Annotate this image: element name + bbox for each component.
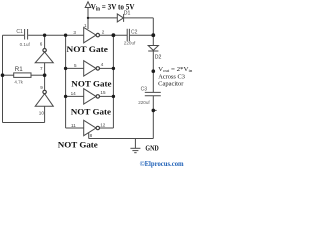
wire gate A input [66, 67, 84, 69]
wire R1 left lead [3, 74, 14, 76]
node dot R1 right stem [43, 73, 47, 77]
svg-text:3: 3 [73, 30, 76, 35]
op-amp U1a bubble [43, 49, 46, 52]
ground bar 3 [134, 152, 136, 154]
wire C2 right lead [129, 34, 153, 36]
svg-text:NOT Gate: NOT Gate [71, 106, 111, 116]
wire gate A output [100, 67, 114, 69]
op-amp U1e bubble [96, 95, 99, 98]
svg-text:NOT Gate: NOT Gate [66, 44, 107, 54]
svg-text:C2: C2 [131, 30, 138, 36]
wire upper up-gate bubble to top rail [44, 35, 46, 48]
svg-text:6: 6 [40, 42, 43, 47]
wire Vin stem and pin1 [87, 8, 89, 30]
svg-text:4.7k: 4.7k [14, 80, 23, 85]
svg-text:C3: C3 [141, 87, 148, 93]
resistor R1 body [14, 73, 31, 78]
svg-text:D2: D2 [155, 54, 162, 60]
wire pin8 stem [88, 131, 90, 139]
svg-text:©Elprocus.com: ©Elprocus.com [140, 159, 185, 168]
op-amp U1f buffer NOT gate C triangle (pins 11-12) [84, 120, 96, 135]
capacitor C3 bottom plate [145, 95, 161, 97]
op-amp U1f bubble [96, 126, 99, 129]
capacitor C1 right plate [27, 29, 29, 40]
wire top rail left segment [3, 34, 25, 36]
op-amp U1b bubble [43, 90, 46, 93]
wire Vin to D1 anode [88, 17, 117, 19]
svg-text:14: 14 [71, 91, 77, 96]
diode D1 cathode bar [123, 14, 125, 22]
svg-text:10: 10 [39, 111, 45, 116]
wire oscillator output to C2 [100, 34, 128, 36]
svg-text:NOT Gate: NOT Gate [71, 78, 111, 88]
svg-text:D1: D1 [124, 11, 131, 17]
op-amp U1c oscillator NOT gate triangle (pins 1-3-2) [84, 27, 96, 42]
svg-text:C1: C1 [16, 29, 23, 35]
svg-text:220uf: 220uf [124, 40, 136, 45]
capacitor C3 top plate [145, 91, 161, 93]
ground bar 2 [132, 150, 138, 152]
wire right vertical D1 to D2 [152, 18, 154, 46]
svg-text:Across C3: Across C3 [158, 73, 185, 80]
op-amp U1e buffer NOT gate B triangle (pins 14-15) [84, 89, 96, 104]
ground bar 1 [130, 147, 140, 149]
svg-text:0.1uf: 0.1uf [20, 42, 31, 47]
capacitor C2 right plate [128, 29, 130, 41]
diode D2 triangle [148, 46, 158, 51]
wire output bus vertical [112, 35, 114, 128]
node dot below C3 [152, 109, 156, 113]
node dot input bus gate B [64, 95, 67, 98]
wire D2 cathode to C3 [152, 51, 154, 92]
svg-text:12: 12 [100, 122, 106, 127]
node dot output bus gate A [112, 67, 115, 70]
svg-text:7: 7 [40, 66, 43, 71]
svg-text:Vout = 2*Vin: Vout = 2*Vin [158, 66, 193, 73]
wire gate C output [100, 127, 114, 129]
node dot top rail at up-gate output [43, 34, 46, 37]
svg-text:11: 11 [71, 123, 76, 128]
wire ground stub [134, 139, 136, 149]
diode D1 triangle [117, 14, 123, 22]
wire stem between up-gates [44, 63, 46, 91]
svg-text:9: 9 [40, 85, 43, 90]
op-amp U1d buffer NOT gate A triangle (pins 5-4) [84, 61, 96, 76]
wire gate C input [66, 127, 84, 129]
node dot C2 left at output bus [112, 33, 116, 37]
svg-text:5: 5 [74, 63, 77, 68]
svg-text:220uf: 220uf [138, 100, 150, 105]
svg-text:4: 4 [101, 62, 104, 67]
capacitor C1 left plate [24, 29, 26, 40]
wire R1 right lead [31, 74, 45, 76]
svg-text:Capacitor: Capacitor [158, 80, 184, 87]
capacitor C2 left plate [126, 29, 128, 41]
wire ground rail [89, 138, 154, 140]
node dot top rail at input bus [64, 34, 67, 37]
op-amp U1a upper up NOT gate triangle (pins 6-7) [35, 52, 53, 63]
wire D1 cathode to corner [124, 17, 154, 19]
wire C3 bottom to ground rail [152, 96, 154, 139]
op-amp U1d bubble [96, 67, 99, 70]
node dot Vout below D2 [152, 69, 156, 73]
node dot input bus gate A [64, 67, 67, 70]
svg-text:GND: GND [145, 146, 158, 153]
wire gate B input [66, 95, 84, 97]
node dot R1 left rail [1, 73, 5, 77]
wire gate B output [100, 95, 114, 97]
node dot Vin D1 branch [87, 17, 89, 19]
wire lower up-gate base to corner [44, 106, 46, 122]
wire input bus [65, 35, 67, 128]
node dot output bus gate B [112, 95, 115, 98]
Vin arrow head [85, 2, 91, 8]
op-amp U1b lower up NOT gate triangle (pins 9-10) [35, 94, 53, 107]
wire tick right of lower C3 dot [153, 109, 156, 111]
svg-text:1: 1 [84, 23, 87, 28]
svg-text:2: 2 [102, 29, 105, 34]
wire top rail C1 to oscillator input [28, 34, 84, 36]
wire bottom left return [3, 122, 45, 124]
op-amp U1c bubble [96, 33, 99, 36]
svg-text:8: 8 [90, 133, 93, 138]
diode D2 cathode bar [148, 50, 158, 52]
svg-text:NOT Gate: NOT Gate [58, 139, 98, 149]
svg-text:R1: R1 [15, 66, 23, 73]
svg-text:15: 15 [100, 90, 106, 95]
node dot C2 right at D1-D2 [151, 33, 155, 37]
wire left rail [2, 35, 4, 122]
